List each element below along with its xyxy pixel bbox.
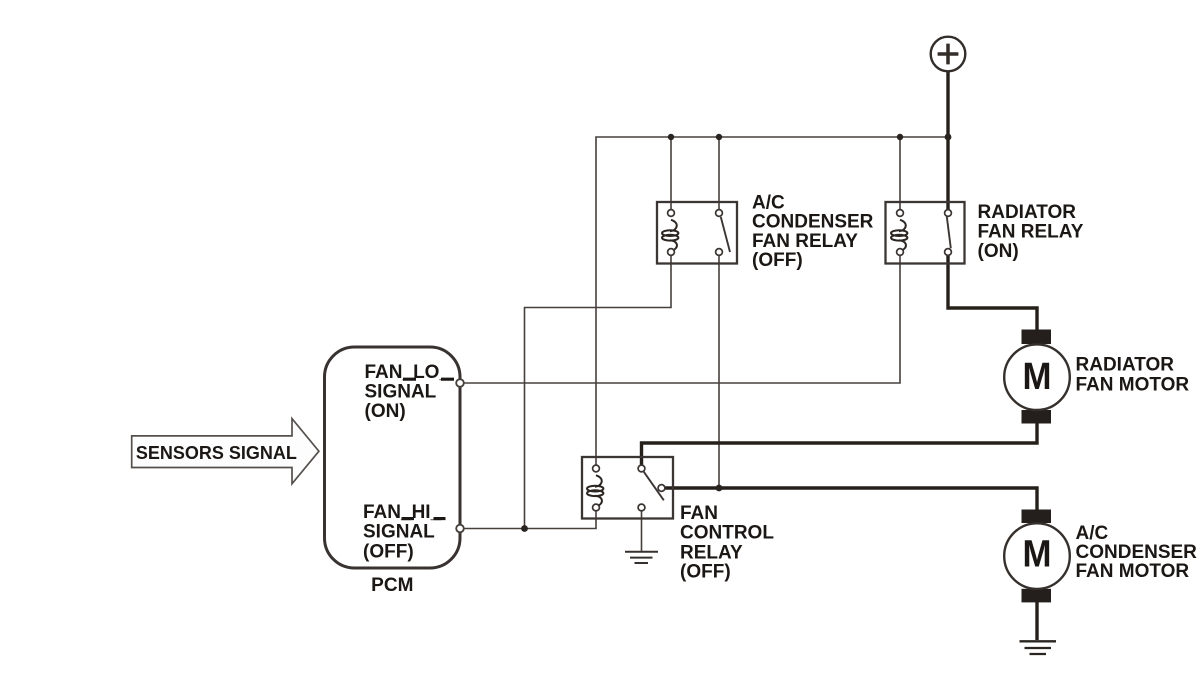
svg-text:(ON): (ON) [365, 401, 406, 422]
svg-text:FAN MOTOR: FAN MOTOR [1076, 374, 1190, 395]
svg-text:SIGNAL: SIGNAL [365, 382, 437, 403]
svg-text:FAN MOTOR: FAN MOTOR [1076, 561, 1190, 582]
svg-text:(OFF): (OFF) [680, 562, 731, 583]
svg-text:(OFF): (OFF) [363, 541, 414, 562]
svg-text:M: M [1023, 356, 1052, 398]
svg-text:A/C: A/C [1076, 523, 1109, 544]
svg-text:(ON): (ON) [978, 241, 1019, 262]
svg-text:FAN RELAY: FAN RELAY [978, 222, 1084, 243]
svg-text:SENSORS SIGNAL: SENSORS SIGNAL [136, 443, 297, 463]
svg-text:FAN RELAY: FAN RELAY [752, 231, 858, 252]
svg-text:M: M [1023, 534, 1052, 576]
svg-text:SIGNAL: SIGNAL [363, 522, 435, 543]
svg-text:PCM: PCM [371, 575, 413, 596]
svg-text:FAN: FAN [680, 503, 718, 524]
svg-text:CONTROL: CONTROL [680, 523, 774, 544]
svg-text:CONDENSER: CONDENSER [752, 212, 874, 233]
svg-text:RELAY: RELAY [680, 542, 743, 563]
svg-text:RADIATOR: RADIATOR [978, 202, 1077, 223]
svg-text:(OFF): (OFF) [752, 250, 803, 271]
svg-text:RADIATOR: RADIATOR [1076, 354, 1175, 375]
svg-text:CONDENSER: CONDENSER [1076, 542, 1198, 563]
svg-text:A/C: A/C [752, 192, 785, 213]
